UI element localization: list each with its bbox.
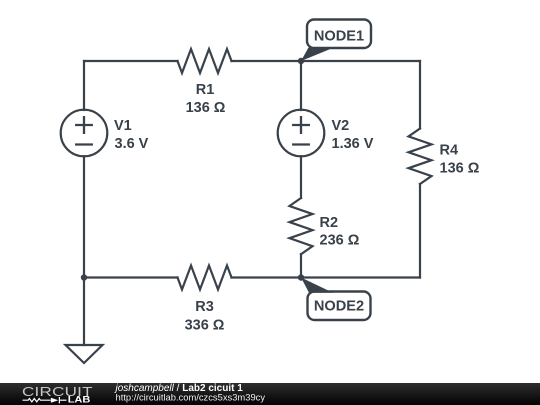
svg-text:136 Ω: 136 Ω <box>186 100 226 116</box>
voltage source V2 <box>278 110 325 157</box>
node label NODE1 <box>301 20 371 62</box>
wire right rail upper (top-right corner to R4 top) <box>419 61 421 129</box>
svg-text:3.6 V: 3.6 V <box>115 136 149 152</box>
footer bar <box>0 383 540 405</box>
wire bottom rail right (R3 to NODE2 to bottom-right corner) <box>232 276 421 278</box>
wire left rail lower (V1 bottom to bottom-left node) <box>83 156 85 277</box>
svg-text:236 Ω: 236 Ω <box>320 233 360 249</box>
svg-text:R3: R3 <box>195 299 214 315</box>
wire bottom rail left (node to R3) <box>84 276 178 278</box>
svg-text:336 Ω: 336 Ω <box>185 318 225 334</box>
wire top rail left (V1 top to R1) <box>84 60 178 62</box>
voltage source V1 <box>61 110 108 157</box>
ground symbol <box>66 345 103 363</box>
svg-text:LAB: LAB <box>68 395 91 405</box>
node junction dot NODE1 <box>298 58 304 64</box>
resistor R1 <box>178 49 232 73</box>
svg-text:R4: R4 <box>440 143 459 159</box>
svg-text:V2: V2 <box>332 118 350 134</box>
svg-text:R2: R2 <box>320 215 339 231</box>
resistor R4 <box>409 129 432 185</box>
resistor R3 <box>178 266 232 290</box>
wire left rail upper (corner to V1 top) <box>83 61 85 110</box>
node label NODE2 <box>301 278 371 321</box>
node junction dot bottom-left <box>81 274 87 280</box>
svg-text:136 Ω: 136 Ω <box>440 161 480 177</box>
wire middle rail lower (R2 bottom to NODE2) <box>300 254 302 277</box>
wire right rail lower (R4 bottom to bottom-right corner) <box>419 184 421 278</box>
wire top rail right (R1 to NODE1 to top-right corner) <box>232 60 421 62</box>
node junction dot NODE2 <box>298 274 304 280</box>
svg-text:NODE1: NODE1 <box>314 28 364 44</box>
wire middle rail (V2 bottom to R2 top) <box>300 156 302 198</box>
wire middle rail upper (NODE1 to V2 top) <box>300 61 302 110</box>
svg-text:1.36 V: 1.36 V <box>332 136 374 152</box>
wire ground stem <box>83 278 85 346</box>
svg-text:V1: V1 <box>114 118 132 134</box>
resistor R2 <box>290 198 313 254</box>
CircuitLab logo <box>22 385 93 405</box>
svg-text:R1: R1 <box>196 82 215 98</box>
svg-text:NODE2: NODE2 <box>314 298 364 314</box>
svg-text:http://circuitlab.com/czcs5xs3: http://circuitlab.com/czcs5xs3m39cy <box>116 391 266 402</box>
